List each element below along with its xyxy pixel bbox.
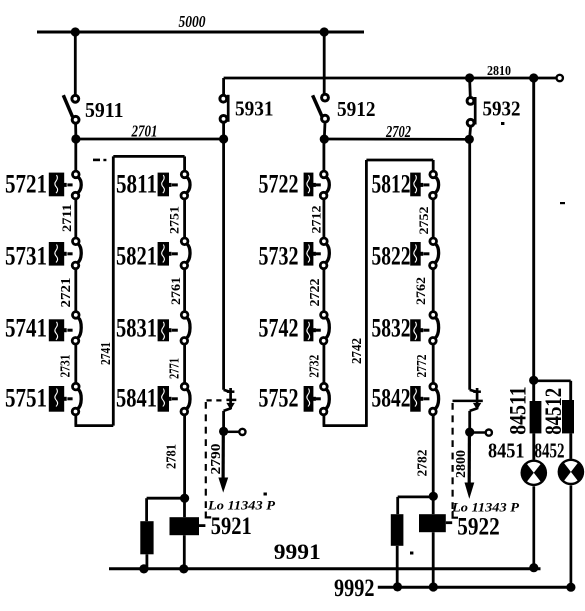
svg-text:5822: 5822: [372, 240, 411, 270]
svg-text:5811: 5811: [116, 168, 157, 198]
svg-text:2742: 2742: [350, 338, 365, 364]
svg-text:8451: 8451: [488, 438, 525, 462]
svg-text:2702: 2702: [385, 122, 411, 141]
svg-text:84511: 84511: [505, 386, 530, 435]
svg-text:2701: 2701: [131, 122, 158, 141]
svg-text:Lo 11343 P: Lo 11343 P: [451, 501, 520, 515]
svg-text:5912: 5912: [337, 97, 376, 121]
svg-text:5911: 5911: [85, 98, 124, 122]
svg-text:2772: 2772: [414, 354, 429, 377]
svg-text:5931: 5931: [235, 97, 274, 121]
svg-text:5932: 5932: [483, 97, 521, 121]
svg-text:2722: 2722: [307, 278, 322, 306]
svg-text:5742: 5742: [259, 313, 299, 343]
svg-text:2721: 2721: [58, 277, 73, 307]
svg-text:2751: 2751: [167, 206, 182, 234]
svg-text:2781: 2781: [164, 444, 179, 469]
svg-text:2711: 2711: [59, 204, 74, 232]
svg-text:5721: 5721: [5, 168, 47, 198]
svg-text:84512: 84512: [541, 388, 566, 435]
svg-text:Lo 11343 P: Lo 11343 P: [207, 499, 276, 513]
svg-text:2810: 2810: [487, 63, 511, 78]
svg-text:9991: 9991: [274, 539, 321, 564]
svg-text:5921: 5921: [211, 511, 252, 540]
svg-text:2712: 2712: [308, 206, 323, 234]
svg-text:5812: 5812: [372, 168, 411, 198]
svg-text:5741: 5741: [5, 313, 47, 343]
svg-text:5722: 5722: [259, 168, 299, 198]
svg-text:2782: 2782: [414, 449, 429, 476]
svg-text:5832: 5832: [372, 313, 411, 343]
svg-text:2761: 2761: [168, 277, 183, 305]
svg-text:8452: 8452: [535, 438, 565, 462]
svg-text:2762: 2762: [413, 277, 428, 305]
svg-text:5821: 5821: [116, 240, 157, 270]
svg-text:2731: 2731: [58, 354, 73, 377]
svg-text:2752: 2752: [416, 207, 431, 235]
svg-text:2741: 2741: [99, 342, 114, 365]
svg-text:2771: 2771: [167, 358, 182, 379]
svg-text:2800: 2800: [454, 450, 469, 478]
svg-text:5752: 5752: [259, 382, 299, 412]
svg-text:5841: 5841: [116, 382, 157, 412]
svg-text:2732: 2732: [306, 355, 321, 378]
svg-text:5732: 5732: [259, 240, 299, 270]
svg-text:5751: 5751: [5, 382, 47, 412]
svg-text:5831: 5831: [116, 313, 157, 343]
svg-text:5842: 5842: [372, 382, 411, 412]
svg-text:5000: 5000: [179, 12, 206, 31]
svg-text:5922: 5922: [457, 512, 500, 541]
svg-text:5731: 5731: [5, 240, 47, 270]
svg-text:9992: 9992: [334, 573, 375, 602]
